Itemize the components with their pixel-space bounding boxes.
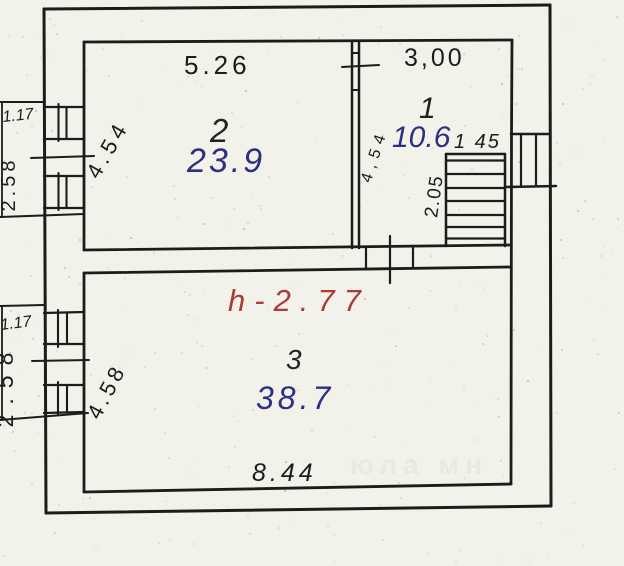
inner top wall rooms 2 and 1 (84, 40, 512, 42)
room 1 right inner wall above window (510, 40, 513, 134)
window W4 box top (44, 384, 84, 386)
right wall window pane line 1 (520, 134, 522, 186)
outer wall top (44, 5, 550, 9)
room 3 inner bottom wall (84, 484, 511, 492)
svg-text:2.58: 2.58 (0, 343, 18, 428)
window W3 pane lines (58, 310, 67, 347)
window W1 box top (44, 106, 84, 108)
left dimension leader above W1 (0, 101, 44, 103)
right wall window box bottom tick (505, 186, 556, 187)
door center tick (389, 236, 391, 283)
svg-text:2.58: 2.58 (0, 157, 20, 212)
svg-text:1 45: 1 45 (454, 131, 501, 153)
left dimension tick between W3 W4 (32, 360, 89, 361)
svg-text:3,00: 3,00 (404, 44, 465, 72)
svg-text:h-2.77: h-2.77 (228, 283, 370, 318)
left dimension tick between W1 W2 (31, 156, 94, 158)
room 2 inner left wall (83, 42, 86, 250)
interior wall masonry joint 2 (352, 89, 359, 91)
staircase top edge (446, 153, 505, 156)
window W4 box bottom (44, 412, 84, 413)
right wall window box top (511, 133, 550, 136)
window W3 box bottom (44, 343, 84, 345)
left dimension leader below W4 (0, 413, 88, 420)
left dimension rail top group (1, 102, 3, 217)
middle wall bottom line (room 3 top) (84, 267, 511, 273)
window W3 box top (44, 312, 84, 313)
window W2 box bottom (44, 207, 84, 209)
svg-text:38.7: 38.7 (256, 380, 334, 416)
staircase steps (446, 161, 505, 239)
outer wall right (550, 5, 551, 506)
svg-text:5.26: 5.26 (184, 50, 251, 80)
outer wall bottom (46, 506, 551, 513)
left dimension leader above W3 (0, 305, 44, 306)
svg-text:юла мн: юла мн (350, 449, 488, 480)
svg-text:1.17: 1.17 (2, 106, 36, 126)
door jamb right (412, 246, 414, 268)
staircase right edge (504, 154, 507, 246)
svg-text:23.9: 23.9 (186, 142, 265, 180)
window W1 pane lines (59, 104, 67, 141)
window W4 pane lines (58, 382, 67, 415)
right wall window pane line 2 (535, 134, 537, 186)
window W2 pane lines (59, 173, 67, 210)
middle wall top line (room 2 bottom) (84, 245, 511, 250)
left dimension rail bottom group (1, 306, 3, 420)
interior wall line B between room 2 and room 1 (358, 41, 361, 248)
door jamb left (365, 248, 367, 269)
window W1 box bottom (44, 138, 84, 140)
dimension tick on interior wall (342, 65, 379, 67)
interior wall masonry joint 1 (352, 52, 359, 54)
outer wall left (44, 9, 46, 513)
svg-text:8.44: 8.44 (252, 459, 317, 487)
window W2 box top (44, 175, 84, 177)
room 3 inner left wall (83, 273, 86, 492)
svg-text:10.6: 10.6 (392, 121, 451, 154)
staircase left edge (445, 154, 448, 246)
right inner wall from window down to room 3 bottom (510, 134, 513, 484)
left dimension leader below W2 (0, 214, 84, 217)
svg-text:3: 3 (286, 344, 302, 375)
interior wall line A between room 2 and room 1 (351, 41, 354, 248)
